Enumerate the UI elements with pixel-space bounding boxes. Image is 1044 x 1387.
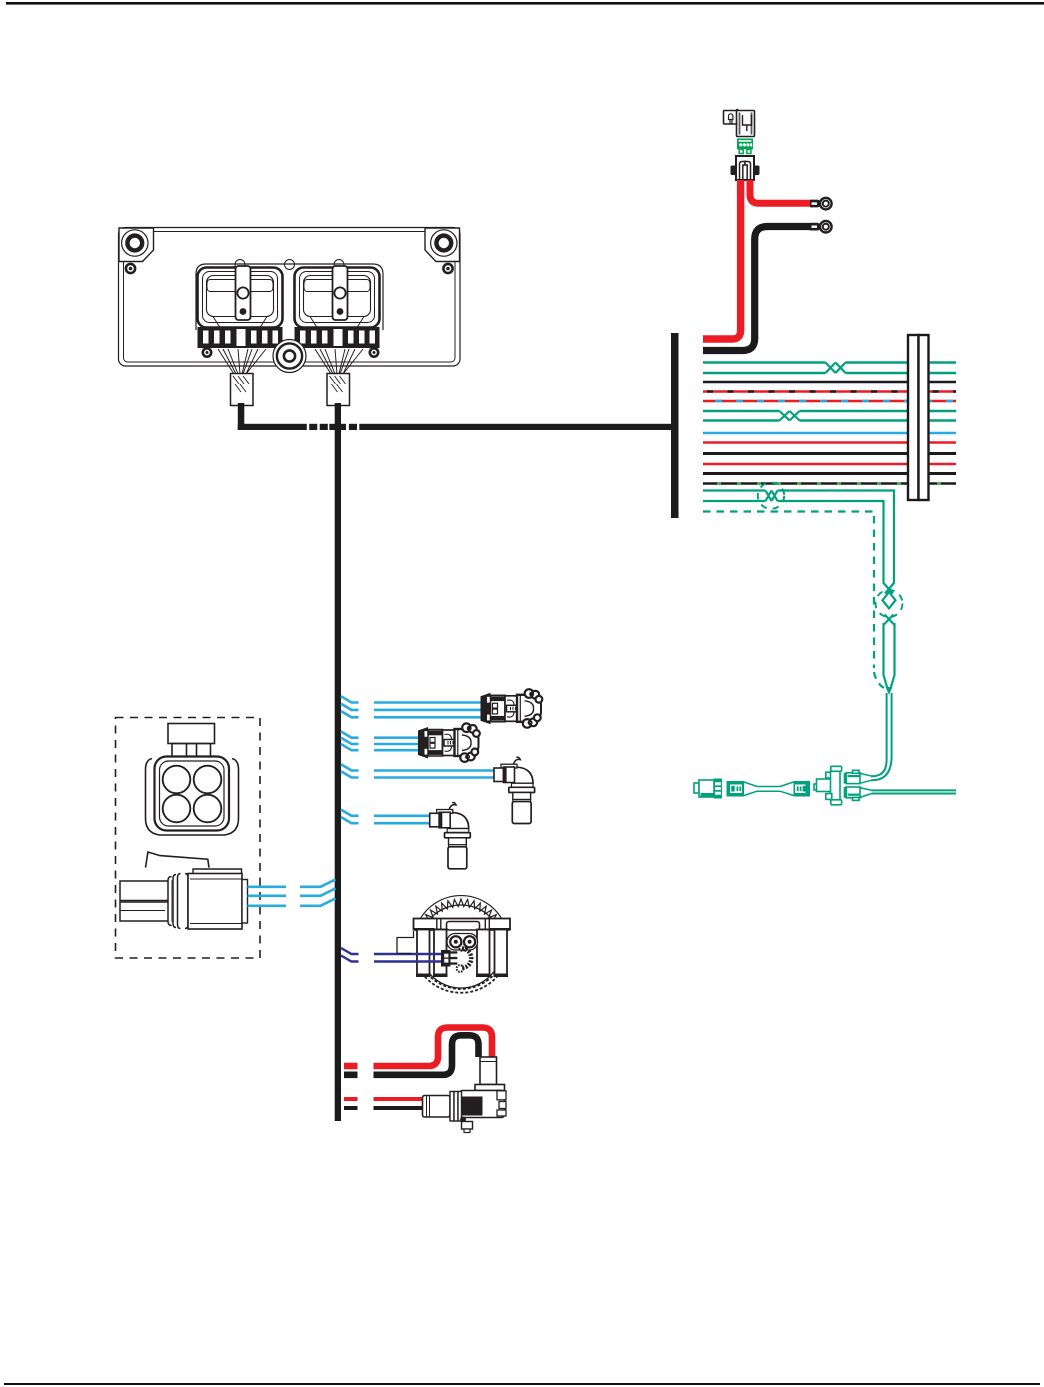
fuel pump label <box>461 1097 483 1116</box>
node: right harness junction bar <box>671 333 679 518</box>
wire fan-out from connector B <box>315 349 363 374</box>
wire: blue sensor lead 3b <box>341 771 495 777</box>
wire: blue sensor lead 4a <box>341 810 430 816</box>
boot sleeve A <box>231 374 254 406</box>
wire: red lead 11 <box>703 463 956 466</box>
optional accessory dashed outline box <box>116 718 261 959</box>
svg-text:DELPHI: DELPHI <box>462 1104 482 1110</box>
wire: blue injector lead 2b <box>341 738 419 744</box>
injector connector 2 <box>418 723 480 762</box>
TPS connector plug <box>441 950 451 967</box>
ECM mounting boss top-left <box>119 228 154 262</box>
wire: blue injector lead 1c <box>341 711 481 717</box>
throttle cam spiral <box>461 949 471 969</box>
wire: main horizontal harness trunk left segment <box>238 424 307 430</box>
wire: red/blue striped lead 5 <box>703 400 956 402</box>
wire: TAN harness lead 7 <box>703 419 956 421</box>
node: splice joint <box>886 687 893 695</box>
throttle body housing circle <box>420 905 503 988</box>
fuel pump body <box>460 1091 505 1118</box>
ECM connector B pin comb <box>295 327 380 348</box>
wire: red regulator lead (stub) <box>344 1097 358 1101</box>
injector connector 1 <box>481 689 543 728</box>
2-pin plug connector <box>694 779 722 799</box>
ECM cover screw bottom-right <box>370 348 378 356</box>
wire: blue injector lead 1a <box>341 696 481 702</box>
fuel pump ribbed collar <box>450 1092 454 1122</box>
wire: red branch to ring terminal <box>750 180 810 203</box>
plug connector (upper, to twin cable) <box>844 770 872 783</box>
throttle gear teeth <box>418 899 503 932</box>
fuse link holder <box>814 766 842 805</box>
bulkhead connector bar (left half) <box>908 335 919 500</box>
fuse socket wing left <box>731 166 737 176</box>
fuel pump inlet barrel <box>423 1096 451 1118</box>
wire: blue lead 1 from 2-pin connector <box>248 879 336 886</box>
wire: harness stub below ECM left sleeve <box>238 403 245 430</box>
wire: black harness lead 3 <box>703 381 956 383</box>
2-pin connector (side view) <box>120 852 248 929</box>
wire: blue sensor lead 3a <box>341 764 495 770</box>
plug connector (lower, to long lead) <box>844 787 872 800</box>
ECM mounting boss top-right <box>425 228 460 262</box>
wire: red battery feed down from fuse <box>703 180 741 339</box>
wire: TAN harness lead 1 <box>703 361 956 363</box>
cam position sensor <box>430 803 471 869</box>
wire: light blue lead 8 <box>703 432 956 435</box>
fuel pump flange <box>475 1085 505 1091</box>
fusible link (inline fuse wire) <box>727 781 811 797</box>
ECM connector A (left bay) <box>198 266 283 329</box>
ECM connector A pin comb <box>198 327 283 348</box>
ECM connector housing shroud <box>196 264 383 330</box>
wire: black regulator lead (stub) <box>344 1106 358 1110</box>
wire: black lead 12 <box>703 472 956 475</box>
fuse (green mini blade) <box>737 139 753 154</box>
wire: TAN accessory lead A <box>703 491 895 689</box>
ring terminal (black lead) <box>810 221 832 233</box>
ECM cover screw top-right <box>443 264 452 273</box>
wire: blue injector lead 1b <box>341 704 481 710</box>
throttle posts <box>417 930 430 976</box>
twisted splice (circled) on vertical drop <box>883 592 896 608</box>
bulkhead connector bar (right half) <box>919 335 929 500</box>
wire: harness trunk dashed segment <box>309 424 317 430</box>
wire: purple TPS lead a <box>341 948 443 954</box>
wire: twin cable down to fuse link <box>871 693 887 776</box>
fuse socket <box>736 156 754 180</box>
wire: TAN harness lead 6 <box>703 410 956 412</box>
wire: red lead 9 <box>703 441 956 444</box>
throttle mounting bar <box>414 919 511 930</box>
footer rule <box>4 1383 1040 1385</box>
wire: TAN twin lead to starboard <box>872 790 956 793</box>
wire: purple TPS lead b <box>341 956 443 962</box>
twisted pair splice on leads 1-2 <box>826 363 846 374</box>
header rule <box>6 2 1044 5</box>
fuse socket wing right <box>754 166 760 176</box>
boot sleeve B <box>327 374 350 406</box>
wire: green/black striped lead 13 <box>703 482 956 485</box>
wire: black pump ground lead <box>374 1035 479 1075</box>
wire: black pump ground lead (stub) <box>344 1072 358 1079</box>
wire: blue injector lead 2c <box>341 744 419 750</box>
ring terminal (red lead) <box>810 198 832 210</box>
twisted pair splice (circled) on leads A-B <box>766 491 778 502</box>
fuel pump bottom nub <box>460 1117 466 1123</box>
wire: black regulator lead <box>374 1106 424 1110</box>
ECM module PCM-555 outer case <box>119 228 461 367</box>
wire: red regulator lead <box>374 1097 424 1101</box>
fuel pump side fittings <box>497 1091 506 1100</box>
wire: black ground lead <box>703 227 810 351</box>
wire: red pump power lead <box>374 1028 493 1067</box>
crank position sensor <box>494 757 535 823</box>
wire: blue lead 2 from 2-pin connector <box>248 888 336 895</box>
wire: black lead 10 <box>703 452 956 455</box>
throttle actuator motor <box>447 934 478 951</box>
twisted pair splice on leads 6-7 <box>780 411 800 421</box>
throttle left bracket <box>397 931 414 954</box>
wire: blue injector lead 2a <box>341 732 419 738</box>
fuse holder cap <box>724 110 755 137</box>
ECM cover screw top-left <box>126 264 135 273</box>
wire: main vertical harness trunk <box>335 403 341 1121</box>
wire: TAN accessory lead B <box>703 501 894 689</box>
ECM cover screw bottom-left <box>203 348 211 356</box>
wire: red pump power lead (stub) <box>344 1063 358 1070</box>
wire: blue lead 3 from 2-pin connector <box>248 898 336 905</box>
wire: red/black striped lead 4 <box>703 390 956 392</box>
ECM connector B (right bay) <box>295 266 380 329</box>
4-pin connector (face view) <box>146 724 239 836</box>
wire: main horizontal harness trunk right segment <box>359 424 671 430</box>
fuel pump terminal cylinder <box>480 1057 497 1085</box>
wire: dashed TAN option lead <box>703 512 874 669</box>
wire: blue sensor lead 4b <box>341 817 430 823</box>
wire: TAN harness lead 2 <box>703 372 956 374</box>
wire fan-out from connector A <box>218 349 266 374</box>
ECM center grommet <box>273 340 306 373</box>
